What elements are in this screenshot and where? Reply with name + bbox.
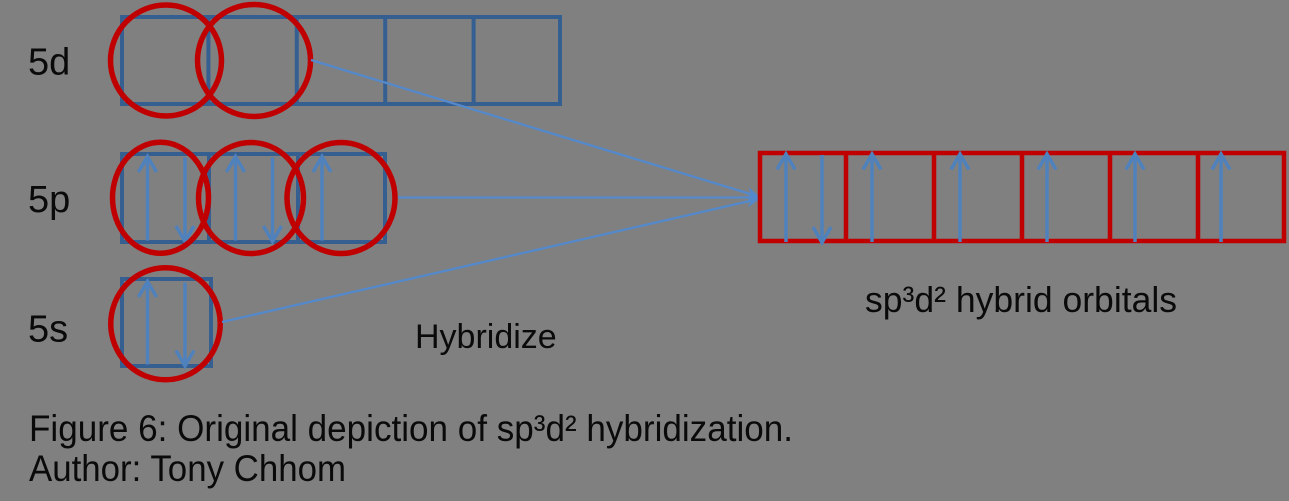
hybrid cell3 up arrow [951,154,969,242]
connector line from 5s to hybrid [222,199,759,322]
5p cell3 up arrow [313,157,331,241]
circle on 5p cell 1 [113,142,209,253]
hybrid cell5 up arrow [1126,154,1144,242]
connector line from 5p to hybrid [398,196,759,198]
hybrid cell1 down arrow [813,155,831,243]
5d orbital boxes [122,17,560,104]
circle on 5s box [111,268,221,380]
5p cell1 down arrow [176,158,194,242]
hybrid cell1 up arrow [777,154,795,242]
svg-text:5d: 5d [28,42,70,84]
circle on 5p cell 3 [287,143,395,254]
5p cell1 up arrow [139,157,157,241]
5p cell2 down arrow [264,158,282,242]
svg-text:Hybridize: Hybridize [415,318,557,356]
svg-text:sp³d² hybrid orbitals: sp³d² hybrid orbitals [865,279,1177,320]
hybrid cell6 up arrow [1212,154,1230,242]
circle on 5d cell 1 [111,5,222,116]
svg-text:5s: 5s [28,309,68,351]
5s up arrow [139,282,157,365]
5p orbital boxes [122,154,385,242]
circle on 5d cell 2 [198,5,311,117]
svg-text:Author: Tony Chhom: Author: Tony Chhom [29,448,346,489]
svg-text:Figure 6: Original depiction o: Figure 6: Original depiction of sp³d² hy… [29,408,793,449]
5s orbital box [122,279,211,366]
hybrid cell2 up arrow [863,154,881,242]
hybrid cell4 up arrow [1038,154,1056,242]
5s down arrow [176,283,194,367]
connector line from 5d to hybrid [311,60,759,197]
circle on 5p cell 2 [199,143,304,254]
hybrid orbitals row [760,153,1284,241]
5p cell2 up arrow [227,157,245,241]
svg-text:5p: 5p [28,179,70,221]
